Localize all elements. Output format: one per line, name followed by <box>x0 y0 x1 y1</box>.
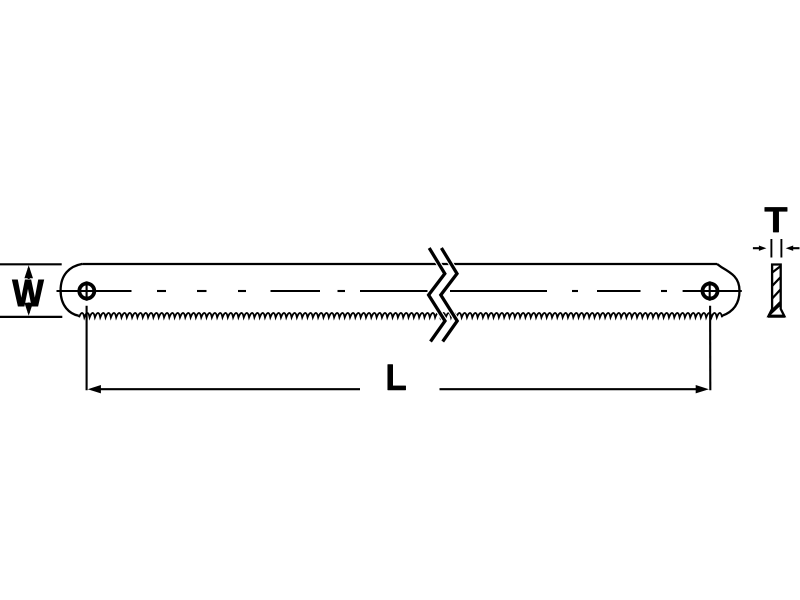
hatch line 2 <box>772 277 781 286</box>
label L <box>388 364 406 390</box>
left L leader line <box>86 306 88 391</box>
right hole vertical crosshair <box>709 281 711 301</box>
break line halo left <box>429 248 445 342</box>
W up arrow <box>24 265 33 279</box>
T right extension line <box>780 239 782 258</box>
W down arrow <box>24 303 33 316</box>
W top extension line <box>0 263 62 265</box>
L dimension line right part <box>440 388 700 390</box>
label T <box>765 207 788 232</box>
centerline dash <box>572 290 578 292</box>
T left arrow <box>753 246 767 251</box>
centerline through left hole <box>57 290 132 292</box>
blade left end cap <box>61 264 83 316</box>
hatch line 1 <box>772 266 781 273</box>
right hole <box>703 284 718 299</box>
hatch line 5 <box>769 304 781 316</box>
cross-section outline <box>768 265 784 317</box>
break line halo right <box>441 248 457 342</box>
right L leader line <box>709 306 711 391</box>
left hole vertical crosshair <box>86 281 88 301</box>
centerline dash <box>157 290 166 292</box>
break zigzag right <box>441 248 457 342</box>
T right arrow <box>786 246 800 251</box>
centerline dash <box>197 290 207 292</box>
centerline dash <box>338 290 346 292</box>
centerline long dash right of break <box>450 290 547 292</box>
saw teeth <box>79 313 722 317</box>
L dimension line left part <box>98 388 360 390</box>
L left arrowhead <box>88 385 101 393</box>
blade top edge <box>82 263 717 265</box>
centerline long dash <box>271 290 321 292</box>
L right arrowhead <box>696 385 709 393</box>
cross-section bottom band <box>768 315 785 318</box>
centerline through right hole <box>683 290 742 292</box>
hatch line 3 <box>772 289 781 298</box>
W bottom extension line <box>0 316 62 318</box>
T left extension line <box>770 239 772 258</box>
hatch line 4 <box>771 302 781 312</box>
centerline long dash <box>360 290 428 292</box>
centerline long dash <box>597 290 641 292</box>
centerline dash <box>238 290 246 292</box>
label W <box>13 280 44 306</box>
left hole <box>79 284 94 299</box>
centerline dash <box>661 290 667 292</box>
blade right end cap <box>717 264 740 316</box>
break zigzag left <box>429 248 445 342</box>
